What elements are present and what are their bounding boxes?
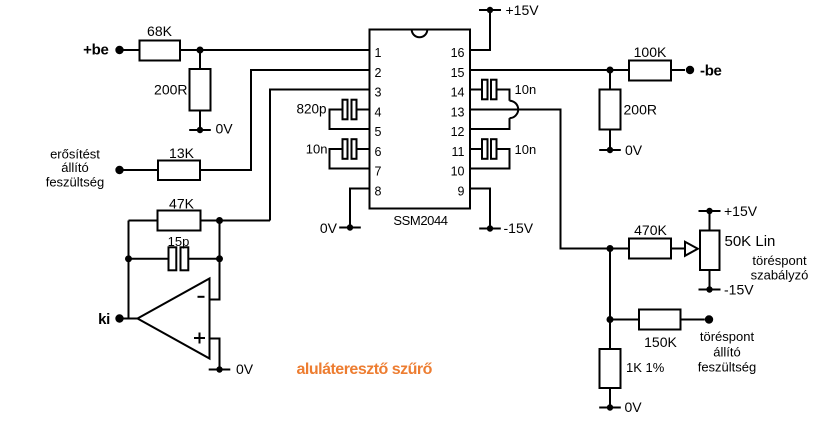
op-amp plus sign — [194, 333, 205, 344]
capacitor C 820p — [343, 100, 357, 120]
wire pin 13 to breakpoint junction — [470, 110, 610, 249]
svg-text:3: 3 — [375, 86, 382, 100]
resistor R 13K — [158, 161, 200, 181]
svg-text:feszültség: feszültség — [698, 360, 757, 375]
svg-text:14: 14 — [451, 86, 465, 100]
wire hop down to pin 12 — [470, 118, 510, 129]
resistor R 100K — [629, 61, 671, 81]
svg-text:0V: 0V — [625, 399, 643, 415]
resistor R 150K — [639, 310, 681, 330]
ground pin 8 — [320, 220, 361, 236]
svg-text:47K: 47K — [169, 196, 195, 212]
terminal +be terminal — [115, 46, 123, 54]
svg-text:töréspont: töréspont — [752, 253, 807, 268]
svg-text:-15V: -15V — [504, 220, 534, 236]
svg-text:4: 4 — [375, 106, 382, 120]
svg-text:-be: -be — [700, 63, 722, 80]
op-amp U2 (output buffer, pointing left) — [138, 279, 210, 359]
junction 150K junction — [607, 316, 614, 323]
wire pin 9 to -15V — [470, 189, 490, 229]
svg-text:16: 16 — [451, 46, 465, 60]
wire pin 8 to ground — [350, 189, 370, 228]
wire feedback left vertical — [128, 221, 130, 319]
ground bottom right — [599, 399, 642, 415]
op-amp/filter IC U1 SSM2044 body — [370, 30, 471, 209]
svg-text:150K: 150K — [644, 334, 677, 350]
wire from +be through 68K node to pin 1 — [120, 49, 370, 51]
svg-text:7: 7 — [375, 165, 382, 179]
svg-text:állító: állító — [61, 160, 88, 175]
svg-text:9: 9 — [458, 185, 465, 199]
wire op-amp non-inverting input to ground — [210, 339, 220, 370]
wire pin 14 through 10n down — [470, 90, 510, 101]
wire pin 2 to 13K resistor run — [120, 70, 370, 170]
svg-text:+15V: +15V — [724, 203, 758, 219]
junction 470K junction — [607, 245, 614, 252]
svg-text:10n: 10n — [515, 142, 537, 157]
svg-text:-15V: -15V — [724, 282, 754, 298]
wire ki output lead — [120, 318, 138, 320]
svg-text:0V: 0V — [320, 220, 338, 236]
wire pin 16 to +15V — [470, 10, 490, 50]
svg-text:+15V: +15V — [506, 2, 540, 18]
svg-text:68K: 68K — [147, 23, 173, 39]
svg-text:1K 1%: 1K 1% — [626, 360, 665, 375]
svg-text:ki: ki — [98, 311, 110, 328]
svg-text:200R: 200R — [154, 82, 187, 98]
svg-text:13K: 13K — [169, 145, 195, 161]
junction pin15/100K/200R junction — [607, 67, 614, 74]
wire 470K run to potentiometer wiper — [610, 248, 685, 250]
svg-text:10n: 10n — [306, 142, 328, 157]
resistor 200R left — [190, 69, 211, 111]
ground below left 200R — [189, 121, 233, 137]
wire pin 11 through 10n to pin 10 — [470, 149, 510, 169]
ground op-amp non-inverting input — [209, 361, 254, 377]
wire potentiometer bottom to -15V — [709, 270, 711, 290]
resistor 200R right — [600, 90, 621, 130]
wire hop over pin 13 net — [510, 101, 519, 118]
svg-text:15p: 15p — [168, 234, 190, 249]
svg-text:feszültség: feszültség — [46, 175, 105, 190]
svg-text:13: 13 — [451, 106, 465, 120]
svg-text:12: 12 — [451, 125, 465, 139]
wire 15p capacitor run — [129, 258, 220, 260]
wire 150K run to terminal — [610, 319, 705, 321]
junction feedback/pin3 node — [216, 217, 223, 224]
terminal breakpoint set voltage terminal — [705, 315, 713, 323]
power +15V pot top supply — [699, 203, 758, 219]
node label: erősítést állító feszültség — [46, 147, 105, 190]
svg-text:SSM2044: SSM2044 — [393, 213, 447, 228]
svg-text:200R: 200R — [624, 102, 657, 118]
svg-text:állító: állító — [713, 345, 740, 360]
op-amp minus sign — [198, 296, 205, 298]
capacitor C 10n pins 14-12 — [482, 80, 497, 100]
resistor R 470K — [629, 239, 671, 259]
potentiometer wiper arrow — [685, 242, 698, 256]
junction 15p left node — [125, 255, 132, 262]
svg-text:100K: 100K — [634, 44, 667, 60]
ground pin 9 supply — [479, 220, 534, 236]
terminal gain control voltage terminal — [115, 166, 123, 174]
caption töréspont szabályzó — [751, 253, 809, 283]
terminal ki output terminal — [115, 314, 123, 322]
node label: töréspont állító feszültség — [698, 329, 757, 375]
wire pin 6 through 10n to pin 7 — [330, 149, 370, 169]
wire feedback top through 47K — [129, 220, 271, 222]
svg-text:6: 6 — [375, 145, 382, 159]
svg-text:15: 15 — [451, 66, 465, 80]
svg-text:10n: 10n — [515, 82, 537, 97]
ground below right 200R — [599, 142, 643, 158]
svg-text:11: 11 — [452, 145, 465, 159]
svg-text:aluláteresztő szűrő: aluláteresztő szűrő — [297, 361, 433, 378]
svg-text:0V: 0V — [625, 142, 643, 158]
potentiometer 50K Lin body — [700, 231, 720, 271]
svg-text:szabályzó: szabályzó — [751, 268, 809, 283]
power -15V pot bottom supply — [699, 282, 755, 298]
power +15V pin 16 supply — [479, 2, 539, 18]
capacitor C 15p — [169, 247, 189, 270]
wire 68K/200R junction down to ground — [199, 50, 201, 130]
wire pin 3 down to op-amp feedback node — [270, 90, 370, 221]
junction 15p right node — [216, 255, 223, 262]
svg-text:820p: 820p — [296, 102, 326, 117]
svg-text:10: 10 — [451, 165, 465, 179]
svg-text:0V: 0V — [236, 361, 254, 377]
wire pin 4 through 820p to pin 5 — [330, 110, 370, 130]
capacitor C 10n left — [343, 139, 357, 159]
resistor R 47K — [158, 211, 201, 231]
capacitor C 10n pins 11-10 — [482, 139, 497, 159]
terminal -be terminal — [686, 66, 694, 74]
wire feedback node down to op-amp inverting input — [210, 221, 220, 300]
svg-text:2: 2 — [375, 66, 382, 80]
svg-text:0V: 0V — [216, 121, 234, 137]
svg-text:1: 1 — [375, 46, 382, 60]
resistor R 68K — [140, 41, 181, 61]
wire right 200R branch to ground — [609, 70, 611, 150]
resistor 1K 1% — [600, 349, 621, 388]
IC notch — [412, 30, 428, 38]
junction 68K/200R junction — [197, 47, 204, 54]
svg-text:+be: +be — [83, 42, 108, 59]
svg-text:8: 8 — [375, 185, 382, 199]
svg-text:töréspont: töréspont — [700, 329, 755, 344]
svg-text:50K Lin: 50K Lin — [725, 233, 776, 250]
wire breakpoint junction down through 1K to ground — [609, 249, 611, 408]
wire potentiometer top to +15V — [709, 211, 711, 231]
wire pin 15 through 100K to -be — [470, 69, 685, 71]
svg-text:5: 5 — [375, 125, 382, 139]
svg-text:470K: 470K — [634, 222, 667, 238]
